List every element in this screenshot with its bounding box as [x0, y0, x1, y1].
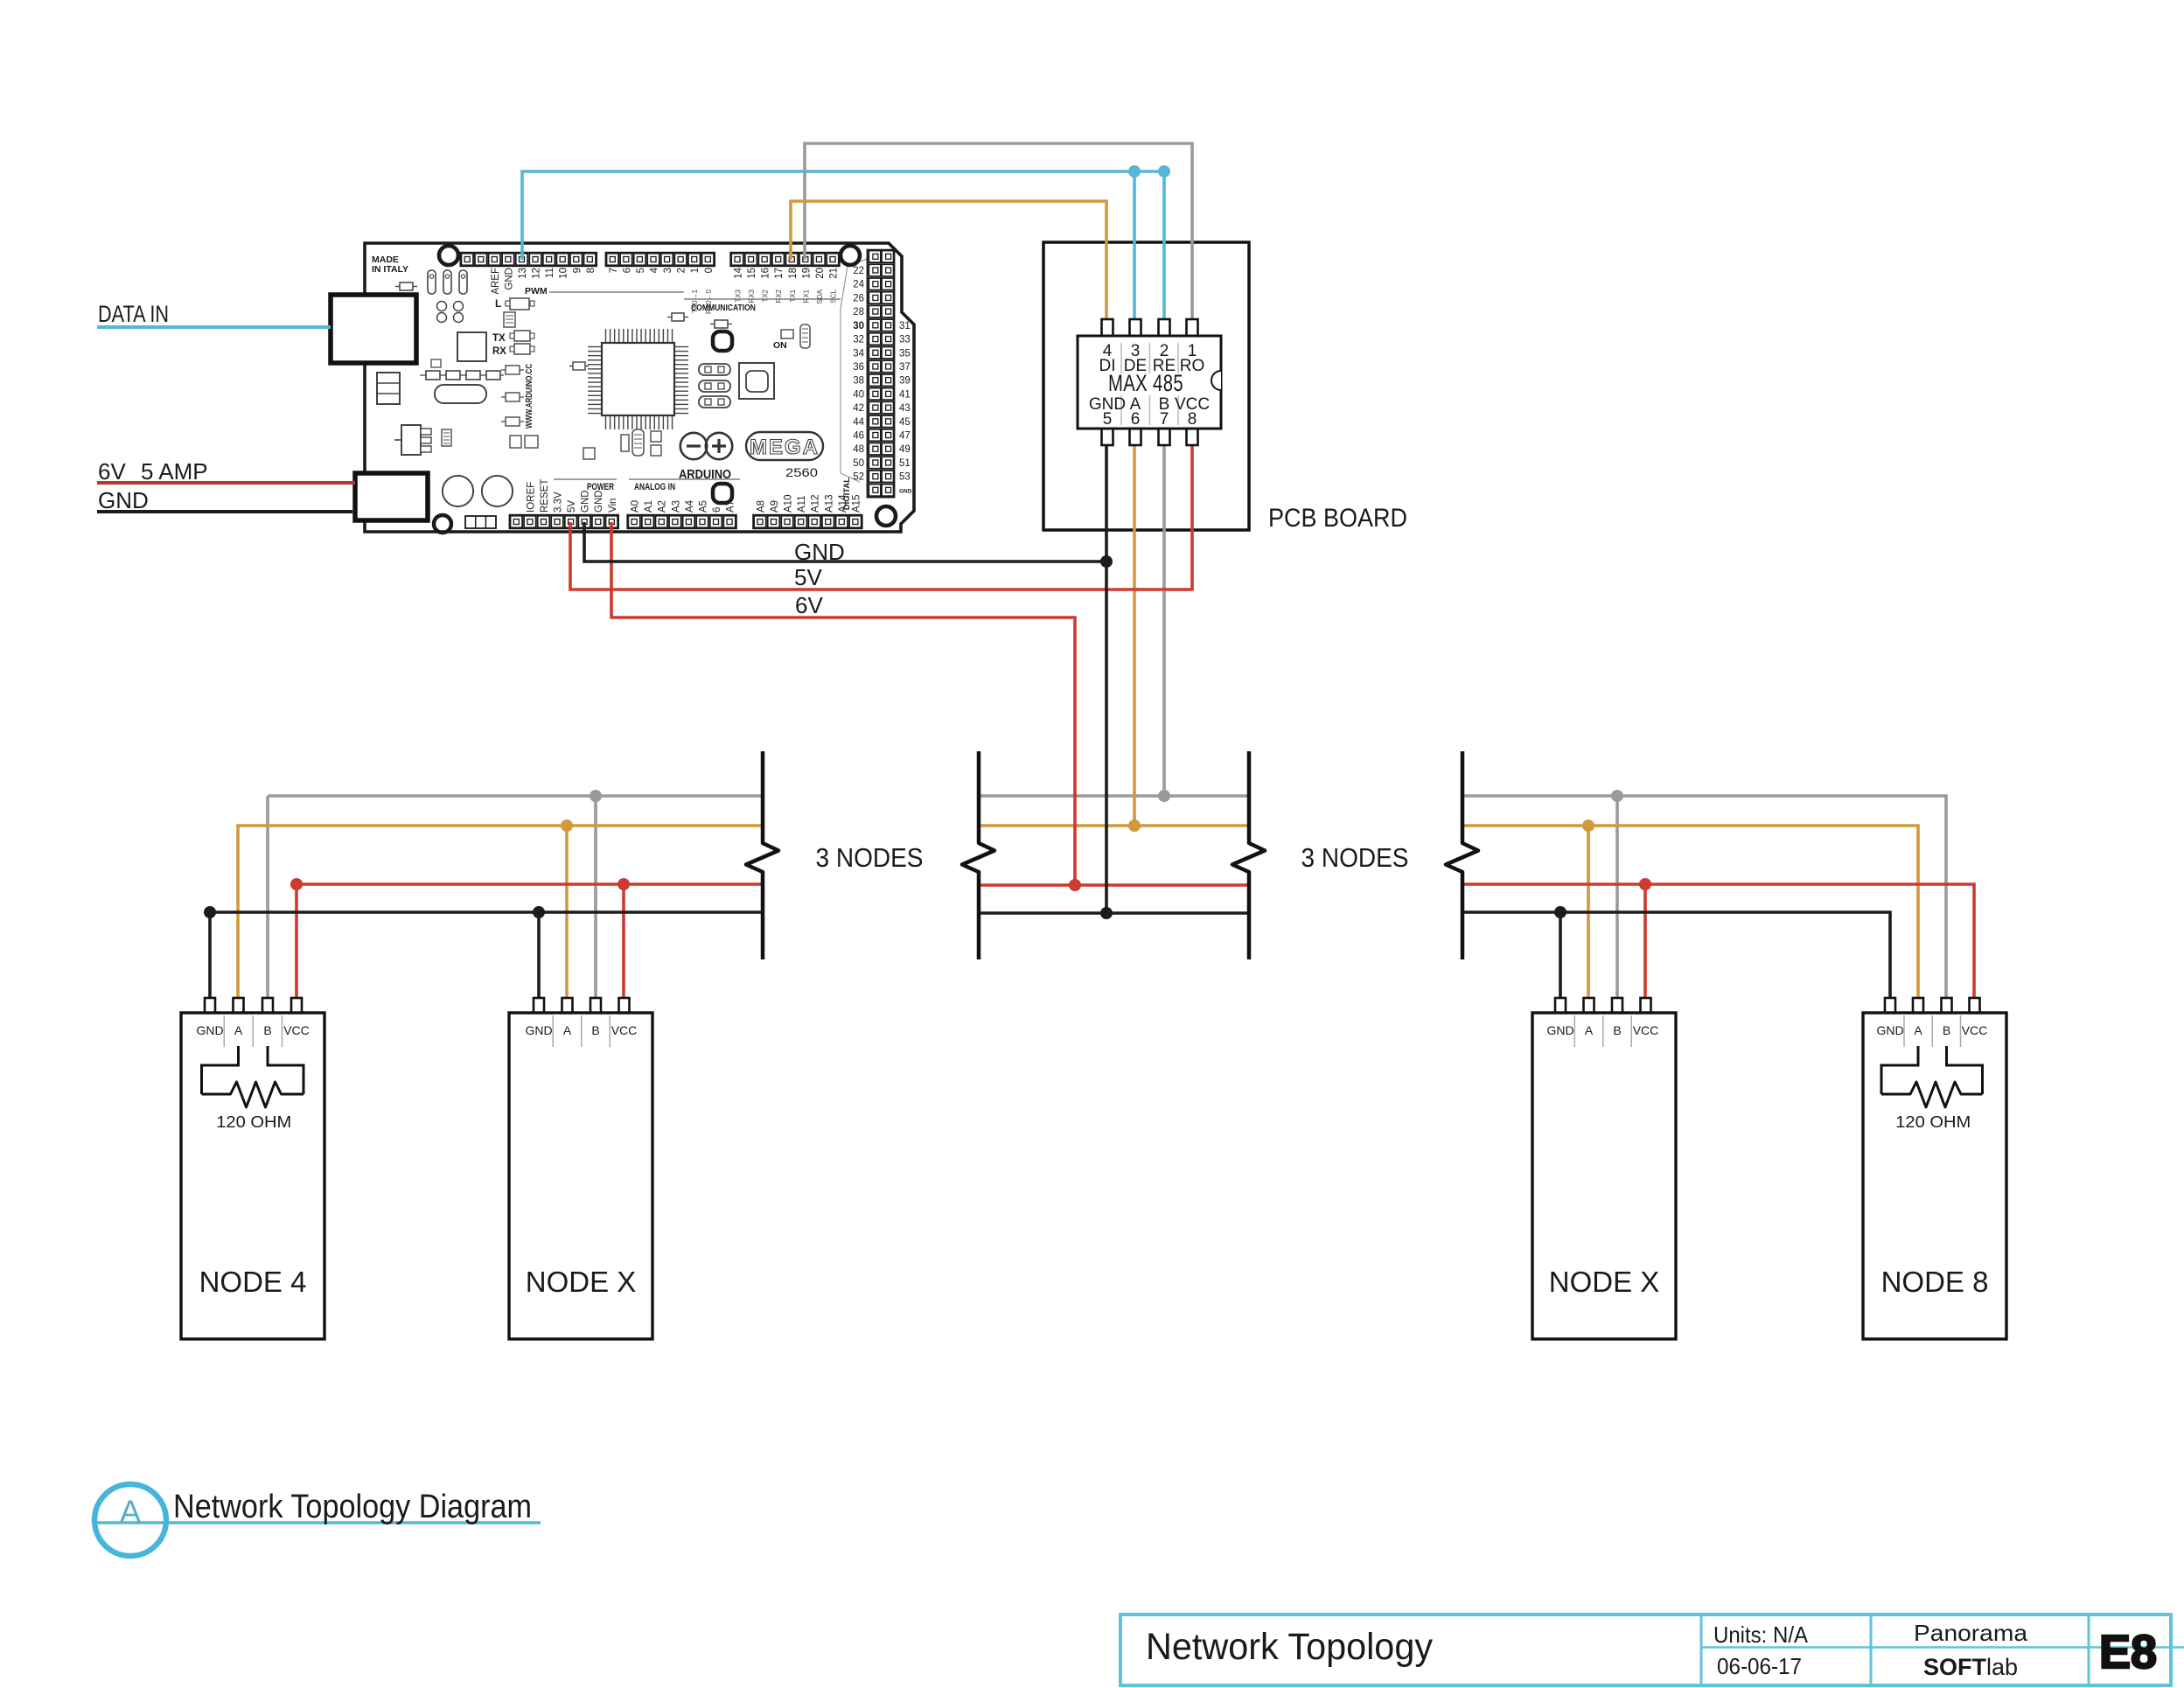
svg-text:ARDUINO: ARDUINO — [679, 468, 731, 482]
svg-text:TX: TX — [492, 333, 506, 344]
svg-text:A2: A2 — [658, 500, 668, 513]
svg-text:7: 7 — [609, 268, 619, 273]
svg-text:A12: A12 — [811, 495, 821, 513]
svg-text:TX3: TX3 — [735, 289, 743, 302]
svg-text:A: A — [234, 1023, 243, 1037]
svg-text:16: 16 — [761, 268, 771, 279]
svg-text:44: 44 — [853, 417, 864, 428]
svg-text:TX1: TX1 — [789, 289, 797, 302]
svg-text:GND: GND — [794, 539, 845, 565]
svg-text:RO: RO — [1180, 357, 1205, 375]
svg-text:42: 42 — [853, 403, 864, 414]
svg-text:Units: N/A: Units: N/A — [1713, 1622, 1809, 1648]
svg-text:3 NODES: 3 NODES — [816, 842, 924, 873]
svg-text:GND: GND — [581, 490, 591, 513]
svg-text:PWM: PWM — [525, 286, 548, 296]
svg-text:GND: GND — [504, 268, 514, 290]
svg-text:45: 45 — [899, 417, 911, 428]
svg-text:RESET: RESET — [540, 479, 550, 513]
svg-text:A15: A15 — [851, 495, 862, 513]
svg-text:13: 13 — [518, 268, 528, 279]
svg-text:6V: 6V — [795, 592, 823, 618]
svg-text:ANALOG IN: ANALOG IN — [634, 482, 675, 492]
svg-text:5: 5 — [1103, 410, 1113, 429]
svg-text:24: 24 — [853, 280, 864, 290]
svg-text:E8: E8 — [2099, 1626, 2157, 1678]
svg-text:GND: GND — [594, 490, 604, 513]
svg-text:SDA: SDA — [816, 289, 824, 303]
svg-text:DATA IN: DATA IN — [98, 301, 169, 327]
svg-text:GND: GND — [1876, 1023, 1903, 1037]
svg-text:11: 11 — [545, 268, 555, 278]
svg-text:8: 8 — [586, 268, 597, 273]
svg-text:A1: A1 — [644, 500, 654, 513]
svg-text:5: 5 — [636, 268, 646, 273]
svg-text:48: 48 — [853, 444, 864, 455]
svg-text:1: 1 — [690, 268, 701, 273]
svg-text:RX3: RX3 — [748, 289, 756, 303]
svg-text:10: 10 — [559, 268, 569, 279]
svg-text:17: 17 — [774, 268, 785, 279]
svg-text:A: A — [1914, 1023, 1922, 1037]
svg-text:GND: GND — [899, 488, 912, 494]
svg-text:37: 37 — [899, 362, 911, 373]
svg-text:GND: GND — [1546, 1023, 1573, 1037]
svg-text:6: 6 — [1131, 410, 1141, 429]
svg-text:B: B — [1613, 1023, 1621, 1037]
svg-text:40: 40 — [853, 389, 864, 400]
svg-text:41: 41 — [899, 389, 911, 400]
svg-text:MAX 485: MAX 485 — [1108, 370, 1183, 396]
svg-text:A13: A13 — [824, 495, 834, 513]
svg-text:0: 0 — [704, 268, 715, 273]
svg-text:3.3V: 3.3V — [554, 492, 564, 513]
svg-text:A4: A4 — [685, 499, 695, 513]
svg-text:SOFTlab: SOFTlab — [1923, 1654, 2018, 1680]
svg-text:A3: A3 — [671, 500, 681, 513]
svg-text:NODE X: NODE X — [526, 1266, 637, 1298]
svg-text:VCC: VCC — [1962, 1023, 1988, 1037]
svg-text:RX2: RX2 — [775, 289, 783, 303]
svg-text:34: 34 — [853, 348, 864, 359]
svg-text:52: 52 — [853, 472, 864, 483]
svg-text:4: 4 — [650, 267, 660, 273]
svg-text:B: B — [591, 1023, 599, 1037]
svg-text:50: 50 — [853, 458, 864, 469]
svg-text:A: A — [563, 1023, 572, 1037]
svg-text:PCB BOARD: PCB BOARD — [1268, 504, 1407, 533]
svg-text:14: 14 — [734, 267, 744, 278]
svg-text:6: 6 — [712, 507, 722, 513]
svg-text:26: 26 — [853, 293, 864, 303]
svg-text:A0: A0 — [631, 500, 641, 513]
svg-text:31: 31 — [899, 321, 911, 331]
svg-text:B: B — [1943, 1023, 1950, 1037]
svg-text:18: 18 — [788, 268, 799, 279]
svg-text:28: 28 — [853, 307, 864, 317]
svg-text:A14: A14 — [838, 494, 848, 513]
svg-text:2: 2 — [677, 268, 687, 273]
svg-text:20: 20 — [815, 268, 826, 279]
svg-text:6: 6 — [622, 268, 632, 273]
svg-text:2560: 2560 — [785, 466, 818, 479]
svg-text:Vin: Vin — [608, 499, 618, 513]
svg-text:RX: RX — [492, 346, 506, 357]
svg-text:A: A — [120, 1494, 142, 1530]
svg-text:A: A — [1585, 1023, 1594, 1037]
svg-text:NODE X: NODE X — [1549, 1266, 1660, 1298]
svg-text:POWER: POWER — [587, 482, 614, 492]
svg-text:46: 46 — [853, 431, 864, 442]
svg-text:A11: A11 — [797, 495, 807, 513]
svg-text:120 OHM: 120 OHM — [216, 1113, 291, 1131]
svg-text:AREF: AREF — [491, 268, 501, 295]
svg-text:8: 8 — [1188, 410, 1197, 429]
svg-text:6V: 6V — [98, 458, 126, 485]
svg-text:51: 51 — [899, 458, 911, 469]
svg-text:Network Topology: Network Topology — [1146, 1626, 1433, 1668]
svg-text:A10: A10 — [784, 495, 794, 513]
svg-text:B: B — [263, 1023, 271, 1037]
svg-text:32: 32 — [853, 335, 864, 345]
svg-text:VCC: VCC — [283, 1023, 310, 1037]
svg-text:IN ITALY: IN ITALY — [372, 264, 408, 275]
svg-text:22: 22 — [853, 266, 864, 276]
svg-text:MEGA: MEGA — [750, 436, 820, 459]
svg-text:5 AMP: 5 AMP — [141, 458, 208, 485]
svg-text:5V: 5V — [567, 500, 577, 513]
svg-text:3: 3 — [663, 268, 673, 273]
svg-text:33: 33 — [899, 335, 911, 345]
svg-text:7: 7 — [1160, 410, 1169, 429]
svg-text:NODE 4: NODE 4 — [199, 1266, 307, 1298]
svg-text:47: 47 — [899, 431, 911, 442]
svg-text:38: 38 — [853, 376, 864, 387]
svg-text:35: 35 — [899, 348, 911, 359]
svg-text:Panorama: Panorama — [1914, 1620, 2028, 1646]
svg-text:9: 9 — [572, 268, 583, 273]
svg-text:TX2: TX2 — [762, 289, 770, 302]
svg-text:A8: A8 — [756, 500, 766, 513]
svg-text:43: 43 — [899, 403, 911, 414]
svg-text:3 NODES: 3 NODES — [1301, 842, 1409, 873]
svg-text:VCC: VCC — [611, 1023, 638, 1037]
svg-text:GND: GND — [525, 1023, 552, 1037]
svg-text:39: 39 — [899, 376, 911, 387]
svg-text:A5: A5 — [698, 500, 708, 513]
svg-text:15: 15 — [747, 268, 757, 279]
svg-text:SCL: SCL — [829, 289, 837, 303]
svg-text:5V: 5V — [794, 564, 822, 590]
svg-text:120 OHM: 120 OHM — [1895, 1113, 1971, 1131]
svg-text:GND: GND — [98, 487, 149, 513]
svg-text:WWW.ARDUINO.CC: WWW.ARDUINO.CC — [524, 364, 534, 429]
svg-text:Network Topology Diagram: Network Topology Diagram — [173, 1489, 532, 1525]
svg-text:49: 49 — [899, 444, 911, 455]
svg-text:A9: A9 — [770, 500, 780, 513]
svg-text:NODE 8: NODE 8 — [1881, 1266, 1989, 1298]
svg-text:ON: ON — [773, 340, 787, 351]
svg-text:19: 19 — [801, 268, 812, 279]
svg-text:53: 53 — [899, 472, 911, 483]
svg-text:36: 36 — [853, 362, 864, 373]
svg-text:30: 30 — [853, 321, 864, 331]
svg-text:06-06-17: 06-06-17 — [1717, 1653, 1802, 1679]
svg-text:VCC: VCC — [1633, 1023, 1659, 1037]
svg-text:21: 21 — [828, 268, 839, 279]
svg-text:RX1: RX1 — [802, 289, 810, 303]
svg-text:IOREF: IOREF — [526, 482, 536, 513]
svg-text:12: 12 — [532, 268, 542, 279]
svg-text:COMMUNICATION: COMMUNICATION — [691, 303, 756, 313]
svg-text:L: L — [495, 297, 501, 310]
svg-text:GND: GND — [196, 1023, 223, 1037]
